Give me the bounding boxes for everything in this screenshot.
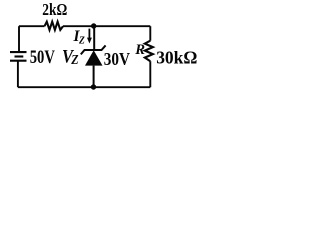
svg-text:30kΩ: 30kΩ — [156, 47, 197, 67]
wire right rail upper — [149, 26, 151, 41]
resistor 2k (horizontal zigzag) — [45, 22, 64, 30]
battery plate short middle — [15, 55, 24, 57]
svg-text:50V: 50V — [30, 47, 56, 68]
wire zener branch upper — [93, 26, 95, 50]
wire right rail lower — [149, 61, 151, 87]
battery plate long top — [10, 51, 27, 53]
wire left rail upper — [18, 26, 20, 52]
current arrow down — [88, 29, 90, 39]
wire zener branch lower — [93, 66, 95, 88]
wire top rail left segment — [19, 25, 45, 27]
node junction dot top — [91, 23, 96, 28]
wire bottom rail — [18, 86, 150, 88]
battery plate long bottom — [10, 60, 27, 62]
svg-text:R: R — [134, 41, 145, 58]
svg-text:Z: Z — [70, 52, 78, 67]
wire left rail lower — [17, 61, 19, 87]
zener diode triangle (anode) — [85, 50, 103, 65]
wire top rail right segment — [63, 25, 150, 27]
node junction dot bottom — [91, 84, 96, 89]
zener diode cathode bar with bends — [81, 45, 106, 54]
resistor R (vertical zigzag) — [145, 41, 153, 62]
svg-text:2kΩ: 2kΩ — [42, 0, 67, 19]
svg-text:30V: 30V — [104, 49, 130, 69]
svg-text:Z: Z — [78, 34, 85, 46]
